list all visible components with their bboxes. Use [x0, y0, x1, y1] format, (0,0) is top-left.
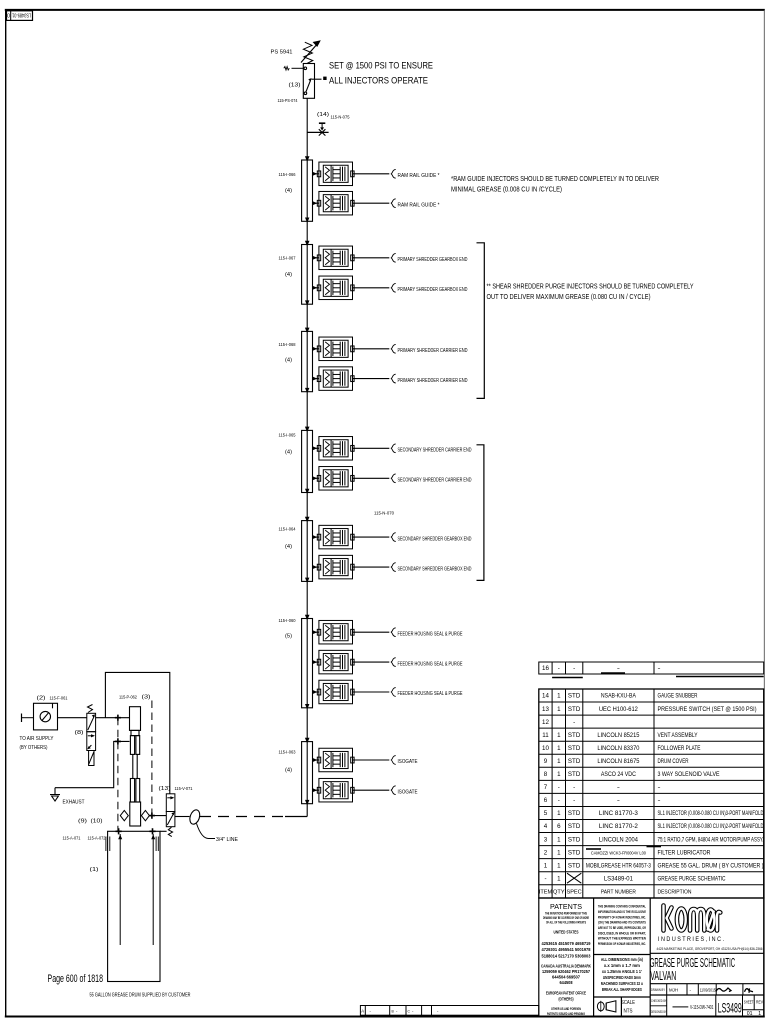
flow arrow into injector 5.1: [312, 535, 317, 539]
svg-text:REV: REV: [756, 1000, 764, 1005]
wire: injector 1.2 outlet line: [353, 202, 390, 204]
wire: branch to injector 2.1: [313, 257, 319, 259]
svg-text:(BY OTHERS): (BY OTHERS): [20, 745, 48, 751]
note: ram guide injectors: [451, 176, 659, 194]
connector break squiggle 5.1: [391, 533, 396, 542]
flow arrow at manifold bottom: [305, 704, 309, 709]
drawn by row: [651, 987, 716, 993]
svg-text:2: 2: [544, 849, 548, 856]
svg-text:1: 1: [557, 862, 561, 869]
svg-text:OTHER US AND FOREIGN: OTHER US AND FOREIGN: [551, 1007, 581, 1011]
svg-text:ALL DIMENSIONS mm (in): ALL DIMENSIONS mm (in): [601, 957, 643, 962]
pressure switch U: PS body 115-PS-074: [303, 64, 321, 99]
svg-text:ISOGATE: ISOGATE: [398, 789, 418, 795]
wire: branch to injector 7.2: [313, 789, 319, 791]
wire: discharge to outlet valve: [149, 815, 166, 817]
leader to 3/4 line label: [197, 824, 216, 839]
svg-text:115-PS-074: 115-PS-074: [278, 98, 298, 103]
flow arrow into injector 5.2: [312, 565, 317, 569]
svg-text:PART NUMBER: PART NUMBER: [601, 890, 636, 896]
flow arrow into injector 2.1: [312, 256, 317, 260]
svg-text:ISOGATE: ISOGATE: [398, 759, 418, 765]
svg-text:-: -: [617, 797, 620, 804]
svg-text:FOLLOWER PLATE: FOLLOWER PLATE: [658, 745, 701, 752]
injector SL1 4.1: [317, 437, 354, 461]
svg-text:STD: STD: [568, 732, 581, 739]
svg-text:STD: STD: [568, 693, 581, 700]
flow arrow at manifold bottom: [305, 800, 309, 805]
injector SL1 6.3: [317, 680, 354, 704]
svg-text:4: 4: [544, 823, 548, 830]
svg-text:5: 5: [544, 810, 548, 817]
svg-text:** SHEAR SHREDDER PURGE INJECT: ** SHEAR SHREDDER PURGE INJECTORS SHOULD…: [487, 284, 694, 291]
3-way solenoid valve 115-V-070: [87, 705, 96, 766]
svg-text:WITHOUT THE EXPRESS WRITTEN: WITHOUT THE EXPRESS WRITTEN: [598, 936, 646, 941]
svg-text:-: -: [544, 875, 546, 882]
wire: branch to injector 6.1: [313, 631, 319, 633]
wire: injector 6.2 outlet line: [353, 661, 390, 663]
wire: branch to injector 5.1: [313, 536, 319, 538]
svg-text:01: 01: [747, 1011, 753, 1017]
svg-text:SECONDARY SHREDDER GEARBOX END: SECONDARY SHREDDER GEARBOX END: [398, 536, 472, 542]
svg-text:11/09/2015: 11/09/2015: [700, 988, 716, 994]
svg-text:EUROPEAN PATENT OFFICE: EUROPEAN PATENT OFFICE: [546, 990, 586, 995]
confidentiality notice: [598, 904, 646, 947]
svg-text:(14): (14): [317, 112, 329, 118]
svg-text:PATENTS ISSUED AND PENDING: PATENTS ISSUED AND PENDING: [547, 1012, 585, 1016]
exhaust muffler symbol: [50, 788, 60, 801]
svg-text:(4): (4): [285, 450, 292, 456]
svg-text:1: 1: [758, 1011, 761, 1017]
injector SL1 4.2: [317, 467, 354, 491]
svg-text:MINIMAL GREASE (0.008 CU IN /C: MINIMAL GREASE (0.008 CU IN /CYCLE): [451, 187, 562, 194]
svg-text:(4): (4): [285, 768, 292, 774]
flow arrow into injector 3.1: [312, 347, 317, 351]
wire: main supply line from pressure switch down to grease line: [306, 98, 308, 816]
svg-text:11: 11: [542, 732, 549, 739]
top-left drawing number box: [7, 11, 33, 21]
injector SL1 3.1: [317, 337, 354, 361]
svg-text:16: 16: [542, 665, 549, 672]
flow arrow at manifold bottom: [305, 578, 309, 583]
svg-text:1: 1: [557, 706, 561, 713]
svg-text:3 WAY SOLENOID VALVE: 3 WAY SOLENOID VALVE: [658, 771, 720, 778]
svg-text:12: 12: [542, 719, 549, 726]
wire: injector 2.2 outlet line: [353, 287, 390, 289]
svg-text:SCALE: SCALE: [621, 1000, 635, 1006]
svg-text:(4): (4): [285, 188, 292, 194]
svg-text:FEEDER HOUSING SEAL & PURGE: FEEDER HOUSING SEAL & PURGE: [398, 661, 463, 667]
wire: injector 5.2 outlet line: [353, 566, 390, 568]
svg-text:(9): (9): [78, 819, 87, 825]
svg-text:PRIMARY SHREDDER CARRIER END: PRIMARY SHREDDER CARRIER END: [398, 348, 468, 354]
filter/lubricator 115-F-061: [34, 703, 58, 730]
wire: branch to injector 5.2: [313, 566, 319, 568]
svg-text:1: 1: [557, 849, 561, 856]
note: shear shredder purge injectors: [487, 284, 694, 302]
signature rows grid: [650, 984, 764, 1016]
svg-text:*RAM GUIDE INJECTORS SHOULD BE: *RAM GUIDE INJECTORS SHOULD BE TURNED CO…: [451, 176, 659, 183]
svg-text:ALL INJECTORS OPERATE: ALL INJECTORS OPERATE: [329, 76, 428, 86]
flow arrow at manifold top: [305, 427, 310, 433]
injector SL1 3.2: [317, 367, 354, 391]
wire: injector 3.1 outlet line: [353, 348, 390, 350]
wire: branch to injector 4.2: [313, 477, 319, 479]
manifold 115-I-063: [302, 742, 313, 804]
svg-text:115-I-065: 115-I-065: [279, 433, 296, 438]
svg-text:SECONDARY SHREDDER CARRIER END: SECONDARY SHREDDER CARRIER END: [398, 448, 472, 454]
manifold 115-I-065: [302, 430, 313, 492]
svg-text:x.x 1mm x 1.7 mm: x.x 1mm x 1.7 mm: [604, 963, 640, 968]
svg-text:TO AIR SUPPLY: TO AIR SUPPLY: [20, 736, 54, 742]
svg-text:NTS: NTS: [624, 1009, 633, 1015]
flow arrow at manifold top: [305, 738, 310, 744]
parts list table: [539, 662, 764, 898]
svg-text:115-I-068: 115-I-068: [279, 342, 296, 347]
flow arrow at manifold top: [305, 517, 310, 523]
svg-text:-: -: [558, 797, 560, 804]
wire: branch to injector 3.1: [313, 348, 319, 350]
junction on air line: [115, 715, 121, 721]
svg-text:DRUM COVER: DRUM COVER: [658, 758, 689, 765]
svg-text:3: 3: [544, 836, 548, 843]
svg-text:ASCO 24 VDC: ASCO 24 VDC: [601, 771, 636, 778]
svg-text:1: 1: [544, 862, 548, 869]
wire: branch to injector 1.1: [313, 173, 319, 175]
svg-text:5188014 5217170 5308003: 5188014 5217170 5308003: [542, 954, 592, 959]
Komar logo: [664, 906, 721, 931]
svg-text:LINCOLN 85215: LINCOLN 85215: [597, 732, 640, 739]
check valve (10) discharge: [141, 810, 149, 820]
svg-text:ITEM: ITEM: [539, 890, 553, 896]
svg-text:-: -: [658, 784, 661, 791]
approval scribbles: [716, 988, 731, 992]
svg-text:I N D U S T R I E S , I N C: I N D U S T R I E S , I N C .: [658, 937, 724, 943]
flow arrow at manifold bottom: [305, 388, 309, 393]
svg-text:(8): (8): [75, 730, 84, 736]
connector break squiggle 6.2: [391, 658, 396, 667]
svg-text:GAUGE SNUBBER: GAUGE SNUBBER: [658, 693, 698, 700]
injector SL1 6.1: [317, 620, 354, 644]
note: set pressure annotation: [323, 61, 433, 86]
svg-text:MACHINED SURFACES 32 u: MACHINED SURFACES 32 u: [601, 981, 643, 986]
svg-text:STD: STD: [568, 862, 581, 869]
svg-text:115-V-071: 115-V-071: [175, 786, 193, 791]
svg-text:LINCOLN 2004: LINCOLN 2004: [599, 836, 639, 843]
wire: valve to coupling: [175, 816, 190, 818]
svg-text:STD: STD: [568, 836, 581, 843]
svg-text:1: 1: [557, 732, 561, 739]
svg-text:STD: STD: [568, 758, 581, 765]
revision change marks: [586, 848, 601, 850]
svg-text:8: 8: [544, 771, 548, 778]
svg-text:SHEET: SHEET: [744, 1000, 754, 1005]
svg-text:115-I-066: 115-I-066: [279, 172, 296, 177]
flow arrow at manifold bottom: [305, 300, 309, 305]
wire: injector 6.3 outlet line: [353, 691, 390, 693]
dimensions tolerances box: [601, 957, 643, 992]
svg-text:LS3489-01: LS3489-01: [12, 12, 31, 18]
connector break squiggle 3.2: [391, 374, 396, 383]
connector break squiggle 6.3: [391, 688, 396, 697]
wire: dashed grease supply line: [200, 816, 285, 818]
wire: branch to injector 1.2: [313, 202, 319, 204]
svg-text:LS3489: LS3489: [718, 1001, 742, 1016]
manifold 115-I-067: [302, 245, 313, 305]
wire: valve to pump air inlet: [96, 717, 130, 719]
svg-text:644504 669507: 644504 669507: [552, 974, 581, 979]
wire: branch to injector 2.2: [313, 287, 319, 289]
flow arrow into injector 1.2: [312, 201, 317, 205]
junction on pilot line: [115, 738, 121, 744]
svg-text:115-I-064: 115-I-064: [279, 527, 296, 532]
svg-text:STD: STD: [568, 849, 581, 856]
svg-text:SET @ 1500 PSI TO ENSURE: SET @ 1500 PSI TO ENSURE: [329, 61, 433, 71]
svg-text:(2): (2): [37, 696, 46, 702]
bracket: secondary shredder group: [477, 445, 484, 581]
flow arrow into injector 3.2: [312, 376, 317, 380]
connector break squiggle 7.2: [391, 786, 396, 795]
svg-text:Page 600 of 1818: Page 600 of 1818: [48, 973, 104, 985]
svg-text:1: 1: [557, 745, 561, 752]
svg-text:(OTHERS): (OTHERS): [559, 997, 574, 1002]
svg-text:PROPERTY OF KOMAR INDUSTRIES,: PROPERTY OF KOMAR INDUSTRIES, INC.: [598, 914, 646, 919]
wire: injector 4.1 outlet line: [353, 447, 390, 449]
svg-text:DESCRIPTION: DESCRIPTION: [658, 890, 692, 896]
injector SL1 6.2: [317, 650, 354, 674]
svg-text:115-A-071: 115-A-071: [63, 836, 81, 841]
svg-text:115-I-067: 115-I-067: [279, 256, 296, 261]
svg-text:7: 7: [544, 784, 548, 791]
svg-text:RAM RAIL GUIDE *: RAM RAIL GUIDE *: [398, 202, 441, 208]
wire: injector 7.2 outlet line: [353, 789, 390, 791]
pump enclosure dashed boundary right: [151, 701, 153, 816]
label TO AIR SUPPLY (BY OTHERS): [20, 736, 54, 751]
flow arrow into injector 6.1: [312, 630, 317, 634]
flow arrow into injector 1.1: [312, 172, 317, 176]
connector break squiggle 7.1: [391, 756, 396, 765]
connector break squiggle 2.1: [391, 253, 396, 262]
check valve (9) suction: [120, 810, 128, 820]
svg-text:PRIMARY SHREDDER GEARBOX END: PRIMARY SHREDDER GEARBOX END: [398, 287, 468, 293]
svg-text:RAM RAIL GUIDE *: RAM RAIL GUIDE *: [398, 173, 441, 179]
svg-text:-: -: [573, 797, 575, 804]
flow arrow into injector 7.1: [312, 758, 317, 762]
svg-text:STD: STD: [568, 771, 581, 778]
connector break squiggle 2.2: [391, 283, 396, 292]
wire: injector 6.1 outlet line: [353, 631, 390, 633]
wire: loop line over pump to grease outlet valve: [105, 672, 169, 793]
svg-text:6: 6: [544, 797, 548, 804]
svg-text:115-P-062: 115-P-062: [119, 695, 137, 700]
svg-text:VENT ASSEMBLY: VENT ASSEMBLY: [658, 732, 698, 739]
svg-text:LINC 81770-2: LINC 81770-2: [599, 823, 639, 830]
wire: branch to injector 6.2: [313, 661, 319, 663]
svg-text:(CKI) THE DRAWING AND ITS CONT: (CKI) THE DRAWING AND ITS CONTENTS: [598, 920, 646, 925]
svg-text:1: 1: [557, 693, 561, 700]
sheet border frame: [5, 9, 765, 11]
bracket: primary shredder group: [477, 243, 485, 399]
reference number: [673, 1005, 714, 1011]
wire: air-line stub into pressure switch: [284, 67, 304, 70]
svg-text:1259059 620462 PR170257: 1259059 620462 PR170257: [542, 969, 591, 974]
svg-text:LINCOLN 83370: LINCOLN 83370: [597, 745, 640, 752]
suction tube right: [151, 834, 155, 945]
svg-text:THE INVENTIONS PERFORMED BY TH: THE INVENTIONS PERFORMED BY THIS: [545, 911, 587, 915]
connector break squiggle 1.1: [391, 169, 396, 178]
svg-text:115-N-075: 115-N-075: [331, 115, 350, 120]
svg-text:(5): (5): [285, 634, 292, 640]
svg-text:MJH: MJH: [669, 988, 678, 994]
svg-text:GREASE 55 GAL. DRUM ( BY CUSTO: GREASE 55 GAL. DRUM ( BY CUSTOMER ): [658, 862, 764, 869]
svg-text:1: 1: [557, 875, 561, 882]
svg-text:-: -: [658, 797, 661, 804]
pump enclosure dashed boundary left: [117, 718, 119, 832]
svg-text:UNITED STATES: UNITED STATES: [554, 930, 579, 935]
connector break squiggle 4.1: [391, 444, 396, 453]
svg-text:115-A-072: 115-A-072: [88, 836, 106, 841]
svg-text:PERMISSION OF KOMAR INDUSTRIES: PERMISSION OF KOMAR INDUSTRIES, INC.: [598, 941, 646, 946]
svg-text:FEEDER HOUSING SEAL & PURGE: FEEDER HOUSING SEAL & PURGE: [398, 631, 463, 637]
svg-text:75:1 RATIO,7 GPM, 84804 AIR MO: 75:1 RATIO,7 GPM, 84804 AIR MOTOR/PUMP A…: [658, 836, 764, 843]
svg-text:10: 10: [542, 745, 549, 752]
svg-text:14: 14: [542, 693, 549, 700]
svg-text:6: 6: [557, 823, 561, 830]
wire: grease line solid segment to riser: [285, 816, 307, 818]
svg-text:SECONDARY SHREDDER GEARBOX END: SECONDARY SHREDDER GEARBOX END: [398, 566, 472, 572]
suction tube left: [118, 834, 122, 945]
svg-text:STD: STD: [568, 745, 581, 752]
svg-text:V-115-DW-7401: V-115-DW-7401: [690, 1005, 714, 1011]
svg-text:FEEDER HOUSING SEAL & PURGE: FEEDER HOUSING SEAL & PURGE: [398, 691, 463, 697]
svg-text:3/4" LINE: 3/4" LINE: [216, 837, 238, 843]
svg-text:PS 5941: PS 5941: [271, 50, 293, 56]
svg-text:GREASE PURGE SCHEMATIC: GREASE PURGE SCHEMATIC: [658, 875, 726, 882]
svg-text:SL1 INJECTOR (0.008-0.080 CU I: SL1 INJECTOR (0.008-0.080 CU IN)2-PORT M…: [658, 823, 764, 830]
svg-text:SECONDARY SHREDDER CARRIER END: SECONDARY SHREDDER CARRIER END: [398, 478, 472, 484]
svg-text:4425 MARKETING PLACE, GROVEPOR: 4425 MARKETING PLACE, GROVEPORT, OH 4312…: [657, 947, 763, 951]
junction at discharge: [149, 813, 155, 819]
svg-text:VALVAN: VALVAN: [650, 969, 676, 983]
injector SL1 7.1: [317, 748, 354, 772]
svg-text:SL1 INJECTOR (0.008-0.080 CU I: SL1 INJECTOR (0.008-0.080 CU IN)3-PORT M…: [658, 810, 764, 817]
svg-text:1: 1: [557, 758, 561, 765]
wire: injector 7.1 outlet line: [353, 759, 390, 761]
flow arrow at manifold bottom: [305, 218, 309, 223]
flow arrow at manifold top: [305, 156, 310, 162]
svg-text:A: A: [361, 1009, 364, 1014]
svg-text:UNSPECIFIED RADII 3mm: UNSPECIFIED RADII 3mm: [603, 975, 641, 980]
grease outlet valve 115-V-071: [166, 794, 175, 837]
svg-text:PRIMARY SHREDDER CARRIER END: PRIMARY SHREDDER CARRIER END: [398, 378, 468, 384]
svg-text:LINC 81770-3: LINC 81770-3: [599, 810, 639, 817]
svg-text:-: -: [558, 665, 560, 672]
svg-text:(4): (4): [285, 544, 292, 550]
svg-text:(4): (4): [285, 272, 292, 278]
svg-text:ARE NOT TO BE USED, REPRODUCED: ARE NOT TO BE USED, REPRODUCED, OR: [598, 925, 646, 930]
svg-text:-: -: [573, 719, 575, 726]
svg-text:115-I-063: 115-I-063: [279, 750, 296, 755]
svg-text:115-I-060: 115-I-060: [279, 618, 296, 623]
connector break squiggle 4.2: [391, 474, 396, 483]
flow arrow into injector 2.2: [312, 286, 317, 290]
svg-text:(3): (3): [142, 695, 151, 701]
svg-text:-: -: [658, 665, 661, 672]
flow arrow at manifold top: [305, 241, 310, 247]
svg-text:xx 1.25mm ANGLE 1 1': xx 1.25mm ANGLE 1 1': [602, 969, 642, 974]
svg-text:STD: STD: [568, 823, 581, 830]
air supply inlet fitting: [22, 714, 34, 723]
svg-text:(13): (13): [289, 83, 301, 89]
connector break squiggle 3.1: [391, 344, 396, 353]
patents box: [541, 902, 592, 1016]
svg-text:LINCOLN 81675: LINCOLN 81675: [597, 758, 640, 765]
svg-text:NSAB-KXU-BA: NSAB-KXU-BA: [601, 693, 637, 700]
svg-text:115-N-070: 115-N-070: [374, 511, 394, 516]
svg-text:STD: STD: [568, 810, 581, 817]
svg-text:BREAK ALL SHARP EDGES: BREAK ALL SHARP EDGES: [602, 987, 642, 992]
svg-text:(10): (10): [91, 819, 103, 825]
svg-text:DRAWING MAY BE COVERED BY ONE: DRAWING MAY BE COVERED BY ONE OR MORE: [543, 916, 589, 920]
svg-text:DESIGNED BY: DESIGNED BY: [651, 1009, 667, 1014]
flow arrow into injector 7.2: [312, 788, 317, 792]
svg-text:MOBILGREASE HTR 64057-3: MOBILGREASE HTR 64057-3: [586, 862, 651, 869]
sheet/rev labels: [744, 1000, 764, 1018]
svg-text:FILTER LUBRICATOR: FILTER LUBRICATOR: [658, 849, 711, 856]
svg-text:CANADA AUSTRALIA DENMARK: CANADA AUSTRALIA DENMARK: [541, 963, 592, 968]
air motor / pump assembly 115-P-062: [130, 707, 141, 826]
injector SL1 1.2: [317, 191, 354, 215]
svg-text:1: 1: [557, 836, 561, 843]
svg-text:EXHAUST: EXHAUST: [63, 800, 85, 806]
svg-text:LS3489-01: LS3489-01: [604, 875, 634, 882]
manifold 115-I-068: [302, 331, 313, 391]
svg-text:4729301 4955541 5001978: 4729301 4955541 5001978: [542, 947, 592, 952]
manifold 115-I-064: [302, 521, 313, 582]
svg-text:INFORMATION AND IS THE EXCLUSI: INFORMATION AND IS THE EXCLUSIVE: [598, 909, 646, 914]
connector break squiggle 1.2: [391, 199, 396, 208]
wire: filter to solenoid valve: [58, 717, 87, 719]
wire: pilot line to pump lower port: [55, 741, 130, 787]
wire: injector 3.2 outlet line: [353, 378, 390, 380]
injector SL1 2.1: [317, 246, 354, 269]
svg-text:13: 13: [542, 706, 549, 713]
junction drum cover right: [149, 828, 155, 834]
wire: branch to injector 4.1: [313, 447, 319, 449]
svg-text:9: 9: [544, 758, 548, 765]
junction drum cover left: [116, 828, 122, 834]
svg-text:QTY: QTY: [553, 890, 565, 896]
svg-text:DISCLOSED, IN WHOLE OR IN PART: DISCLOSED, IN WHOLE OR IN PART,: [598, 930, 646, 935]
wire: branch to injector 6.3: [313, 691, 319, 693]
flow arrow into injector 6.3: [312, 690, 317, 694]
55 gallon grease drum: [106, 831, 167, 981]
wire: injector 2.1 outlet line: [353, 257, 390, 259]
svg-text:OUT TO DELIVER MAXIMUM GREASE: OUT TO DELIVER MAXIMUM GREASE (0.080 CU …: [487, 294, 651, 301]
injector SL1 1.1: [317, 162, 354, 186]
svg-text:PRESSURE SWITCH (SET @ 1500 PS: PRESSURE SWITCH (SET @ 1500 PSI): [658, 706, 757, 713]
svg-text:-: -: [617, 665, 620, 672]
svg-text:0: 0: [7, 12, 10, 18]
wire: injector 4.2 outlet line: [353, 477, 390, 479]
svg-text:1: 1: [557, 771, 561, 778]
connector break squiggle 6.1: [391, 628, 396, 637]
svg-text:115-F-061: 115-F-061: [50, 696, 68, 701]
flow arrow into injector 4.2: [312, 476, 317, 480]
svg-text:-: -: [573, 784, 575, 791]
svg-text:4253615 4515079 4658719: 4253615 4515079 4658719: [542, 941, 592, 946]
wire: branch to injector 3.2: [313, 378, 319, 380]
